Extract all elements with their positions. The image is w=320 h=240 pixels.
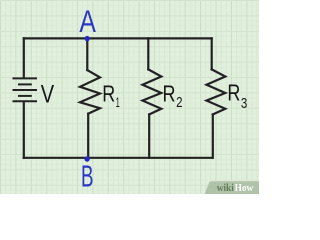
- graph paper background: [0, 0, 259, 194]
- resistor R1 zigzag: [80, 70, 100, 114]
- wire left vertical bottom (battery - lead): [23, 102, 25, 158]
- svg-text:A: A: [79, 3, 96, 39]
- battery V plate long 1: [14, 77, 37, 79]
- battery V plate long 2: [14, 89, 37, 91]
- wire top horizontal (node A rail): [24, 37, 212, 39]
- svg-text:R: R: [227, 80, 240, 106]
- battery V plate long 3: [14, 100, 37, 102]
- resistor R2 zigzag: [143, 69, 162, 114]
- node A junction dot: [85, 36, 90, 41]
- svg-text:B: B: [81, 159, 94, 194]
- wire R2 top lead: [147, 38, 149, 69]
- svg-text:V: V: [41, 80, 55, 108]
- battery V plate short 2: [19, 95, 31, 97]
- wire R3 bottom lead: [212, 114, 214, 157]
- svg-text:3: 3: [241, 96, 247, 112]
- wire R1 bottom lead: [87, 114, 89, 158]
- svg-text:R: R: [102, 81, 115, 107]
- svg-text:1: 1: [116, 94, 120, 110]
- svg-text:R: R: [163, 81, 176, 107]
- wire bottom horizontal (node B rail): [24, 157, 212, 159]
- wire R2 bottom lead: [148, 114, 150, 157]
- svg-text:wiki: wiki: [217, 182, 234, 194]
- wikiHow watermark badge: [205, 181, 260, 194]
- wire R1 top lead: [86, 38, 88, 70]
- resistor R3 zigzag: [207, 69, 226, 114]
- battery V plate short 1: [19, 83, 31, 85]
- svg-text:How: How: [235, 182, 254, 194]
- node B junction dot: [84, 156, 89, 161]
- svg-text:2: 2: [176, 95, 182, 111]
- wire left vertical top (battery + lead): [23, 38, 25, 77]
- wire R3 top lead: [211, 38, 213, 69]
